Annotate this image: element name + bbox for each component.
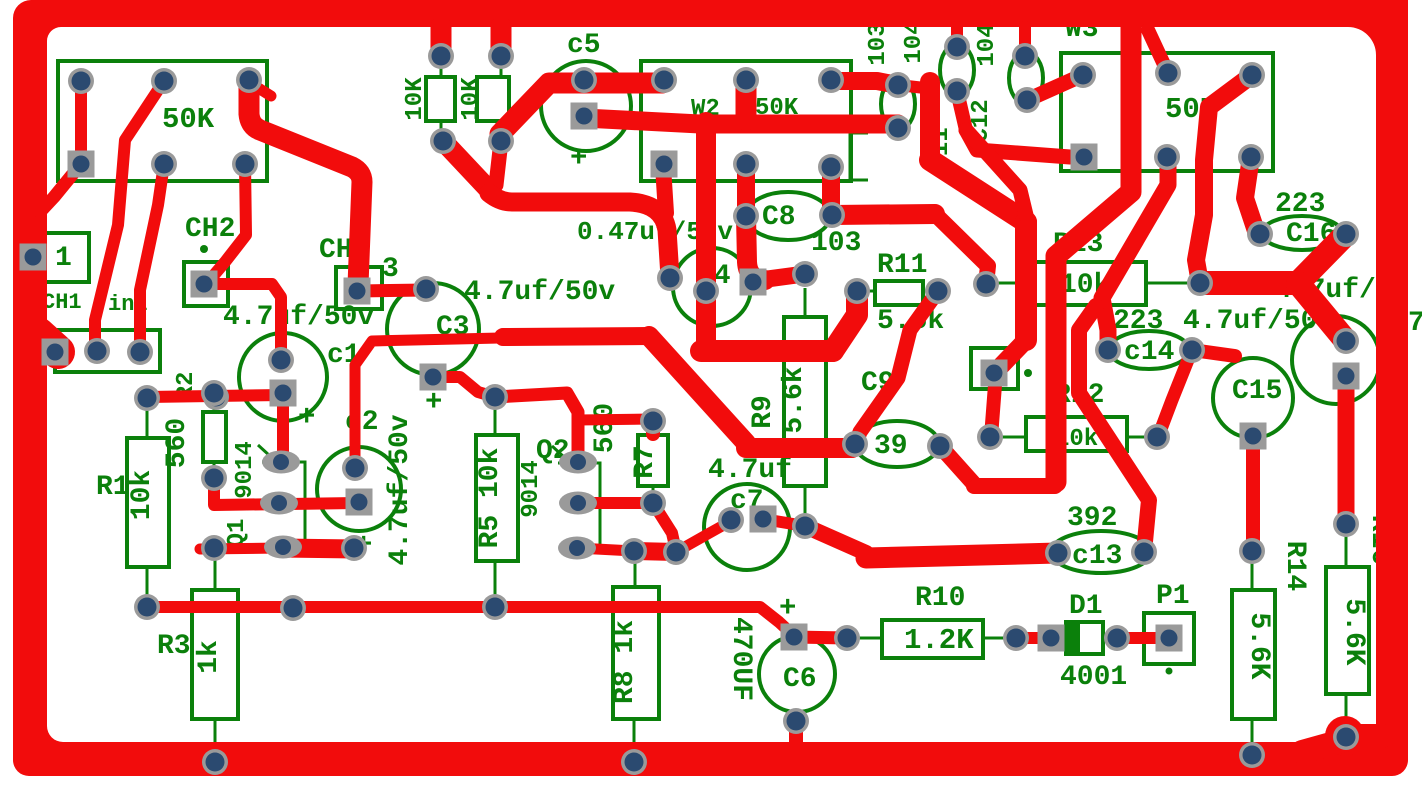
svg-text:R14: R14 <box>1279 541 1310 591</box>
svg-text:10K: 10K <box>402 77 429 121</box>
svg-text:223: 223 <box>1275 189 1325 220</box>
svg-text:39: 39 <box>874 431 908 462</box>
svg-text:3: 3 <box>382 254 399 285</box>
svg-text:C15: C15 <box>1232 376 1282 407</box>
svg-text:560: 560 <box>590 403 621 453</box>
svg-text:R1: R1 <box>96 472 130 503</box>
svg-text:5.6k: 5.6k <box>779 366 810 433</box>
svg-text:+: + <box>298 401 315 434</box>
svg-text:50K: 50K <box>162 103 215 136</box>
svg-text:223: 223 <box>1113 306 1163 337</box>
svg-text:R7: R7 <box>630 445 661 479</box>
svg-text:+: + <box>570 142 587 175</box>
svg-text:7: 7 <box>1408 308 1422 339</box>
svg-text:4.7uf/50v: 4.7uf/50v <box>385 414 416 565</box>
svg-text:R10: R10 <box>915 583 965 614</box>
svg-text:1k: 1k <box>194 640 225 674</box>
svg-text:R8 1k: R8 1k <box>610 620 641 704</box>
svg-text:1: 1 <box>55 243 72 274</box>
svg-text:R9: R9 <box>748 395 779 429</box>
svg-text:+: + <box>425 386 442 419</box>
svg-text:560: 560 <box>162 418 193 468</box>
svg-text:4.7uf/50v: 4.7uf/50v <box>223 302 374 333</box>
svg-text:104: 104 <box>974 23 1001 66</box>
svg-text:CH2: CH2 <box>185 214 235 245</box>
svg-text:4001: 4001 <box>1060 662 1127 693</box>
svg-text:R11: R11 <box>877 250 927 281</box>
svg-text:5.6K: 5.6K <box>1338 598 1369 665</box>
svg-text:4.7uf/50v: 4.7uf/50v <box>464 277 615 308</box>
svg-text:10k: 10k <box>127 470 158 521</box>
svg-text:103: 103 <box>811 228 861 259</box>
svg-text:9014: 9014 <box>518 460 545 518</box>
svg-text:c13: c13 <box>1072 541 1122 572</box>
svg-text:103: 103 <box>865 22 892 65</box>
svg-text:9014: 9014 <box>232 441 259 499</box>
svg-text:c5: c5 <box>567 30 601 61</box>
svg-text:392: 392 <box>1067 503 1117 534</box>
svg-text:C6: C6 <box>783 664 817 695</box>
svg-text:R3: R3 <box>157 631 191 662</box>
svg-text:1.2K: 1.2K <box>904 624 974 657</box>
svg-text:C8: C8 <box>762 202 796 233</box>
svg-text:4.7uf/50: 4.7uf/50 <box>1183 306 1317 337</box>
svg-text:R5 10k: R5 10k <box>475 447 506 548</box>
svg-text:470UF: 470UF <box>725 617 756 701</box>
svg-text:4.7uf: 4.7uf <box>708 455 792 486</box>
svg-text:CH1: CH1 <box>42 290 82 315</box>
svg-text:CH: CH <box>319 235 353 266</box>
svg-text:D1: D1 <box>1069 591 1103 622</box>
svg-text:10K: 10K <box>458 77 485 121</box>
svg-text:5.6K: 5.6K <box>1243 612 1274 679</box>
svg-text:P1: P1 <box>1156 581 1190 612</box>
svg-text:c14: c14 <box>1124 337 1174 368</box>
